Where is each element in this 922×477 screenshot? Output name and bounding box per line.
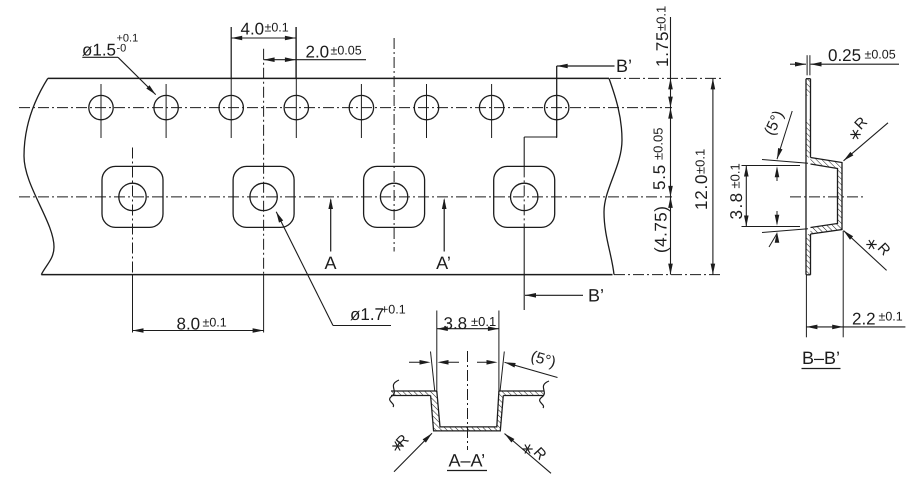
pocket 4 center hole [511, 183, 538, 210]
pocket 2 center hole [250, 183, 277, 210]
label dia1.7 text [350, 303, 406, 325]
svg-text:1.75: 1.75 [653, 31, 672, 67]
pocket 2 vertical centerline [263, 49, 265, 333]
section A-A' pocket inner wall [437, 391, 499, 427]
label (5deg) A-A' text [529, 348, 558, 371]
dimension 3.8 line B-B' [744, 166, 749, 227]
section B-B' pocket hatch [811, 158, 843, 235]
svg-text:A: A [324, 253, 336, 273]
svg-text:ø1.7: ø1.7 [350, 305, 384, 324]
section B-B' pocket outer wall [811, 158, 843, 235]
section label B-B' [802, 348, 841, 369]
label *R upper B-B' [850, 114, 871, 139]
section A-A' pocket outer wall [431, 396, 504, 431]
label (5deg) B-B' leader [777, 111, 792, 159]
section line B-B' step [524, 66, 557, 166]
section B-B' pocket inner wall [811, 164, 838, 228]
sprocket hole 1 [89, 95, 113, 119]
section label A-A' [447, 451, 487, 471]
section A-A' flange right [499, 391, 544, 396]
sprocket hole 8 [545, 95, 569, 119]
dimension 4.0 text [241, 20, 289, 39]
dimension 0.25 text [828, 46, 896, 65]
svg-text:A–A’: A–A’ [448, 451, 485, 471]
dimension 12.0 line [711, 78, 716, 274]
svg-text:±0.1: ±0.1 [654, 6, 669, 31]
dimension 0.25 extension lines [807, 55, 810, 75]
svg-text:(4.75): (4.75) [652, 206, 671, 253]
pocket 4 outline [494, 166, 555, 227]
svg-text:8.0: 8.0 [177, 315, 201, 334]
sprocket hole 5 vertical centerline [360, 84, 362, 138]
label dia1.7 leader [276, 212, 391, 326]
sprocket hole 6 [414, 95, 438, 119]
svg-text:2.0: 2.0 [306, 43, 330, 62]
draft extension line right A-A' [500, 352, 504, 392]
pocket 4 vertical centerline [523, 166, 525, 310]
svg-text:ø1.5: ø1.5 [82, 41, 116, 60]
section marker A [324, 198, 336, 273]
draft extension line upper B-B' [762, 160, 808, 164]
dimension 4.0 line [231, 36, 296, 41]
section B-B' pocket centerline [790, 196, 866, 198]
sprocket hole 4 [284, 95, 308, 119]
dimension 2.0 text [306, 43, 362, 62]
section B-B' tape wall caps [806, 79, 811, 275]
svg-text:B’: B’ [588, 286, 604, 306]
dimension 1.75 text [653, 6, 672, 67]
section B-B' tape wall left face [805, 79, 807, 275]
extension line tape top right [610, 77, 722, 79]
svg-text:+0.1: +0.1 [381, 303, 406, 317]
tape left break line [24, 78, 54, 274]
draft extension line left A-A' [431, 352, 435, 392]
label (5deg) B-B' text [761, 108, 787, 138]
pocket 3 vertical centerline [393, 38, 395, 252]
label *R upper B-B' leader [844, 123, 889, 161]
sprocket hole 8 vertical centerline [556, 66, 558, 138]
svg-text:-0: -0 [117, 43, 127, 55]
svg-text:±0.05: ±0.05 [865, 48, 896, 62]
draft angle arrows left A-A' [409, 360, 459, 365]
section B-B' tape wall right face [810, 79, 812, 275]
section marker B' top [557, 56, 632, 76]
dimension 8.0 text [177, 315, 227, 334]
section B-B' tape wall hatch [806, 79, 811, 275]
dimension 4.0 extension lines [231, 27, 296, 78]
section marker A' [436, 198, 451, 273]
sprocket hole 5 [349, 95, 373, 119]
pocket 1 vertical centerline [132, 148, 134, 333]
draft extension line lower B-B' [762, 229, 808, 233]
pocket 3 center hole [380, 183, 407, 210]
chain dimension line right [668, 17, 673, 275]
svg-text:±0.1: ±0.1 [693, 149, 708, 174]
label *R left A-A' leader [394, 433, 432, 472]
dimension 12.0 text [692, 149, 711, 210]
svg-text:±0.1: ±0.1 [728, 163, 743, 188]
section A-A' right break squiggle [540, 381, 549, 408]
dimension 3.8 line A-A' [437, 326, 499, 331]
dimension 5.5 text [650, 128, 669, 190]
pocket 3 outline [364, 166, 425, 227]
dimension 3.8 text A-A' [444, 314, 497, 333]
dimension 2.2 line [806, 325, 905, 330]
sprocket hole 3 [219, 95, 243, 119]
svg-text:±0.1: ±0.1 [265, 21, 289, 35]
svg-text:0.25: 0.25 [828, 46, 861, 65]
section marker B' bottom [525, 286, 604, 306]
sprocket hole 1 vertical centerline [100, 84, 102, 138]
pocket 1 center hole [119, 183, 146, 210]
sprocket row centerline [19, 107, 672, 109]
draft angle arrows lower B-B' [769, 211, 779, 247]
sprocket hole 4 vertical centerline [295, 27, 297, 138]
svg-text:12.0: 12.0 [692, 174, 711, 210]
svg-text:B’: B’ [616, 56, 632, 76]
svg-text:±0.1: ±0.1 [203, 316, 227, 330]
sprocket hole 2 [154, 95, 178, 119]
dimension 0.25 line [790, 62, 899, 67]
section A-A' vertical centerline [467, 351, 469, 450]
svg-text:B–B’: B–B’ [802, 348, 840, 368]
sprocket hole 7 vertical centerline [491, 84, 493, 138]
svg-text:±0.1: ±0.1 [471, 314, 496, 329]
section A-A' material hatch [391, 391, 544, 431]
sprocket hole 3 vertical centerline [230, 27, 232, 138]
svg-text:A’: A’ [436, 253, 451, 273]
pocket 1 outline [102, 166, 163, 227]
label *R lower B-B' [866, 240, 894, 260]
section A-A' left break squiggle [390, 380, 399, 407]
sprocket hole 6 vertical centerline [426, 84, 428, 138]
dimension 2.2 extension lines [806, 231, 843, 337]
label *R right A-A' [522, 444, 550, 464]
svg-text:3.8: 3.8 [444, 314, 468, 333]
dimension 3.8 text B-B' [727, 163, 746, 219]
pocket row centerline [19, 196, 672, 198]
label *R lower B-B' leader [844, 231, 887, 271]
pocket 2 outline [233, 166, 294, 227]
tape bottom edge [41, 274, 612, 276]
dimension 3.8 extension lines B-B' [742, 166, 801, 227]
tape right break line [604, 78, 622, 274]
label *R right A-A' leader [505, 434, 552, 474]
label (5deg) A-A' leader [505, 362, 558, 377]
label dia1.5 +0.1/-0 leader [82, 57, 155, 94]
svg-text:3.8: 3.8 [727, 191, 746, 219]
dimension 3.8 extension lines A-A' [437, 311, 499, 392]
dimension 8.0 line [133, 328, 264, 333]
extension line tape bottom right [614, 274, 722, 276]
svg-text:5.5: 5.5 [650, 164, 669, 190]
sprocket hole 2 vertical centerline [165, 84, 167, 138]
section A-A' flange left [391, 391, 437, 396]
tape top edge [48, 77, 609, 79]
draft angle arrows upper B-B' [775, 166, 780, 181]
label dia1.5 text [82, 33, 138, 60]
svg-text:±0.1: ±0.1 [879, 310, 903, 324]
sprocket hole 7 [479, 95, 503, 119]
svg-text:±0.05: ±0.05 [331, 44, 362, 58]
draft angle arrow right A-A' [477, 360, 498, 365]
dimension 4.75 text [652, 206, 671, 253]
svg-text:4.0: 4.0 [241, 20, 265, 39]
dimension 2.2 text [852, 310, 903, 329]
svg-text:±0.05: ±0.05 [651, 128, 666, 160]
dimension 2.0 line [264, 57, 366, 62]
label *R left A-A' [392, 431, 412, 451]
svg-text:2.2: 2.2 [852, 310, 876, 329]
